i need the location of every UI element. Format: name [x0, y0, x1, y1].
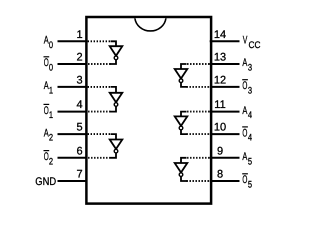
inverter U1d (triangle) [175, 69, 188, 79]
wire: inverter U1a output to pin 2 (dotted) [111, 60, 117, 64]
IC package body U1 (DIP-14 outline) [86, 17, 211, 204]
pin-1 index notch (top semicircle) [135, 18, 166, 31]
pin 14 lead wire (right) [210, 40, 240, 42]
pin 8 lead wire (right) [210, 180, 240, 182]
svg-text:3: 3 [248, 85, 252, 96]
svg-text:V: V [243, 35, 248, 47]
svg-text:10: 10 [214, 122, 226, 134]
overbar for O4 [242, 126, 248, 128]
pin 2 lead wire (left) [58, 63, 88, 65]
svg-text:3: 3 [76, 75, 82, 87]
wire: pin 1 input net to inverter U1a (dotted) [88, 40, 111, 42]
overbar for O2 [44, 150, 50, 152]
pin 13 lead wire (right) [210, 63, 240, 65]
svg-text:11: 11 [214, 99, 225, 111]
inverter U1d output bubble [179, 79, 183, 83]
svg-text:O: O [242, 127, 247, 139]
overbar for O1 [44, 103, 50, 105]
svg-text:0: 0 [49, 40, 53, 51]
pin 9 lead wire (right) [210, 157, 240, 159]
wire: pin 11 input net to inverter U1e (dotted) [187, 111, 210, 113]
svg-text:5: 5 [76, 122, 82, 134]
inverter U1e (triangle) [175, 116, 188, 126]
svg-text:2: 2 [49, 133, 53, 144]
svg-text:4: 4 [76, 99, 82, 111]
wire: inverter U1b output to pin 4 (dotted) [111, 106, 117, 111]
wire: inverter U1e output to pin 10 (dotted) [181, 130, 187, 134]
wire: inverter U1c output to pin 6 (dotted) [111, 153, 117, 158]
inverter U1f output bubble [179, 173, 183, 177]
inverter U1c (triangle) [110, 140, 123, 150]
svg-text:2: 2 [76, 52, 82, 64]
pin 10 lead wire (right) [210, 133, 240, 135]
svg-text:O: O [242, 174, 247, 186]
pin 7 lead wire (left) [58, 180, 88, 182]
wire: pin 5 input net to inverter U1c (dotted) [88, 133, 111, 135]
svg-text:2: 2 [49, 156, 53, 167]
overbar for O3 [242, 79, 248, 81]
svg-text:14: 14 [214, 29, 226, 41]
svg-text:9: 9 [217, 145, 223, 157]
svg-text:13: 13 [214, 52, 226, 64]
inverter U1f (triangle) [175, 163, 188, 173]
pin 3 lead wire (left) [58, 86, 88, 88]
svg-text:5: 5 [248, 156, 252, 167]
pin 11 lead wire (right) [210, 111, 240, 113]
pin 12 lead wire (right) [210, 86, 240, 88]
inverter U1e output bubble [179, 126, 183, 130]
overbar for O0 [44, 56, 50, 58]
svg-text:6: 6 [76, 145, 82, 157]
inverter U1c output bubble [114, 149, 118, 153]
svg-text:3: 3 [248, 63, 252, 74]
svg-text:0: 0 [49, 63, 53, 74]
inverter U1a output bubble [114, 56, 118, 60]
svg-text:O: O [242, 80, 247, 92]
svg-text:12: 12 [214, 75, 226, 87]
inverter U1a (triangle) [110, 46, 123, 56]
wire: inverter U1f output to pin 8 (dotted) [181, 177, 187, 182]
inverter U1b output bubble [114, 103, 118, 107]
svg-text:1: 1 [49, 110, 53, 121]
svg-text:1: 1 [49, 85, 53, 96]
wire: inverter U1d output to pin 12 (dotted) [181, 83, 187, 87]
svg-text:CC: CC [249, 40, 261, 51]
svg-text:4: 4 [248, 133, 252, 144]
wire: pin 13 input net to inverter U1d (dotted) [187, 63, 210, 65]
wire: pin 9 input net to inverter U1f (dotted) [187, 157, 210, 159]
svg-text:4: 4 [248, 110, 252, 121]
pin 1 lead wire (left) [58, 40, 88, 42]
overbar for O5 [242, 173, 248, 175]
svg-text:7: 7 [76, 169, 82, 181]
pin 4 lead wire (left) [58, 111, 88, 113]
svg-text:GND: GND [35, 176, 56, 188]
wire: pin 3 input net to inverter U1b (dotted) [88, 86, 111, 88]
svg-text:1: 1 [76, 29, 82, 41]
pin 5 lead wire (left) [58, 133, 88, 135]
inverter U1b (triangle) [110, 93, 123, 103]
svg-text:5: 5 [248, 180, 252, 191]
pin 6 lead wire (left) [58, 157, 88, 159]
svg-text:8: 8 [217, 169, 223, 181]
